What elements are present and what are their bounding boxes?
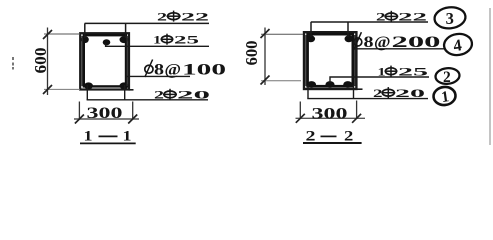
svg-text:2: 2 xyxy=(157,9,167,23)
svg-text:1: 1 xyxy=(84,129,93,145)
rebar dot bottom-left of right section (2*20) xyxy=(307,81,316,88)
dim 600 right: bottom tick xyxy=(261,76,270,85)
rebar bar top-middle (1*25) xyxy=(103,39,111,45)
leader 2*20 right horizontal xyxy=(307,98,428,100)
dim 300 right: extension left xyxy=(299,102,301,120)
balloon 4 xyxy=(443,32,474,57)
dim 600 left: dimension line xyxy=(47,28,49,96)
dim 300 right: left tick xyxy=(296,114,305,123)
dim 600 right: top extension line xyxy=(261,33,303,35)
rebar symbol in right 2*20 xyxy=(381,87,395,98)
svg-text:@: @ xyxy=(165,62,182,79)
rebar symbol in 1*25 xyxy=(161,34,174,45)
rebar dot bottom-right (2*20) xyxy=(120,82,129,89)
leader 1*25 hook xyxy=(106,44,209,47)
label 2*22 xyxy=(157,9,209,23)
svg-text:8: 8 xyxy=(364,34,374,51)
svg-text:25: 25 xyxy=(174,33,199,47)
svg-text:200: 200 xyxy=(392,34,442,51)
left column scan filler left xyxy=(81,36,83,86)
svg-text:2: 2 xyxy=(443,69,451,86)
svg-text:25: 25 xyxy=(398,64,428,78)
svg-text:20: 20 xyxy=(177,88,210,102)
dim 600 left: bottom tick xyxy=(43,85,52,94)
title 1-1 underline xyxy=(80,142,136,144)
svg-text:1: 1 xyxy=(378,64,386,78)
svg-text:@: @ xyxy=(374,34,391,51)
title 1-1 dash xyxy=(99,135,118,137)
svg-text:300: 300 xyxy=(87,105,123,122)
rebar dot bottom-left (2*20) xyxy=(84,82,93,89)
plain phi symbol of phi8@100 xyxy=(145,60,153,78)
leader 2*20 right drop right xyxy=(353,85,355,99)
dim 300 left: extension left xyxy=(78,102,80,120)
dim 300 right: dimension line xyxy=(296,117,366,119)
rebar dot bottom-right of right section (2*20) xyxy=(343,81,352,88)
rebar dot top-left (2*22) xyxy=(81,36,89,43)
dim 600 right: dimension line xyxy=(264,28,266,86)
title 2-2 underline xyxy=(303,142,362,144)
balloon 1 xyxy=(433,86,457,106)
label phi8@200 right xyxy=(364,34,442,51)
label 1*25 right xyxy=(378,64,429,78)
label 1*25 xyxy=(153,33,199,47)
leader 2*20 horizontal xyxy=(87,99,208,101)
dim 600 left: top extension line xyxy=(44,33,80,35)
dim 300 right: right tick xyxy=(352,114,361,123)
svg-text:600: 600 xyxy=(31,48,50,74)
leader 2*22 horizontal xyxy=(85,22,209,24)
svg-text:300: 300 xyxy=(312,105,348,122)
leader phi8@100 xyxy=(126,75,190,77)
leader 2*22 right section horizontal xyxy=(311,21,428,23)
balloon 2 xyxy=(435,67,460,86)
svg-text:1: 1 xyxy=(440,88,450,106)
dim 600 right: top tick xyxy=(261,29,270,38)
svg-text:3: 3 xyxy=(446,9,454,28)
dim 600 right: bottom extension line xyxy=(261,80,301,82)
dim 600 left: bottom extension line xyxy=(44,88,80,90)
scan speckles left margin xyxy=(12,57,14,70)
leader 2*20 right drop left xyxy=(307,85,309,99)
right column scan filler right xyxy=(354,35,356,86)
label 2*20 right xyxy=(373,86,425,100)
label phi8@100 xyxy=(154,62,226,79)
leader 1*25 right hook xyxy=(330,77,429,83)
svg-text:2: 2 xyxy=(376,10,386,24)
rebar symbol in right 2*22 xyxy=(384,11,398,22)
right stirrup xyxy=(308,34,353,86)
svg-text:20: 20 xyxy=(395,86,425,100)
dim 300 left: left tick xyxy=(75,115,84,124)
table border right xyxy=(489,8,491,145)
svg-text:22: 22 xyxy=(181,9,209,23)
svg-text:8: 8 xyxy=(154,62,164,79)
right column scan filler left xyxy=(305,35,307,86)
svg-text:100: 100 xyxy=(182,62,226,79)
dim 300 left: extension right xyxy=(132,102,134,120)
dim 300 right: extension right xyxy=(356,101,358,120)
left stirrup xyxy=(84,35,126,86)
label 2*22 right xyxy=(376,10,427,24)
leader 2*22 drop right xyxy=(125,23,127,38)
rebar dot top-right of right section (2*22) xyxy=(345,35,354,42)
rebar symbol in right 1*25 xyxy=(385,66,398,77)
svg-text:1: 1 xyxy=(123,129,132,145)
leader phi8@200 right xyxy=(355,48,444,50)
label 2*20 xyxy=(154,88,210,102)
leader 2*22 right drop left xyxy=(310,22,312,37)
svg-text:22: 22 xyxy=(398,10,427,24)
rebar bar bottom-middle of right section (1*25) xyxy=(325,81,334,88)
rebar symbol in 2*20 xyxy=(163,89,177,100)
leader 2*22 right drop right xyxy=(347,22,349,37)
dim 600 left: top tick xyxy=(43,30,52,39)
leader 2*22 drop left xyxy=(84,23,86,38)
dim 300 left: right tick xyxy=(128,115,137,124)
rebar dot top-left of right section (2*22) xyxy=(307,35,316,42)
title 2-2 dash xyxy=(321,135,337,137)
balloon 3 xyxy=(433,6,466,30)
svg-text:600: 600 xyxy=(242,41,261,66)
svg-text:4: 4 xyxy=(452,35,463,55)
leader 2*20 bottom with two drops xyxy=(86,85,88,100)
right beam outer outline xyxy=(304,32,356,89)
right beam bottom edge extension xyxy=(356,88,363,90)
left beam bottom edge extension xyxy=(129,89,134,91)
title 1-1 text xyxy=(84,129,132,145)
plain phi symbol of phi8@200 xyxy=(354,32,362,50)
rebar dot top-right (2*22) xyxy=(120,36,129,43)
svg-text:2: 2 xyxy=(154,88,164,102)
dim 300 left: dimension line xyxy=(74,118,139,120)
leader 2*20 drop right xyxy=(124,85,126,100)
title 2-2 text xyxy=(306,129,354,145)
left beam outer outline xyxy=(80,33,129,89)
svg-text:2: 2 xyxy=(373,86,383,100)
svg-text:1: 1 xyxy=(153,33,161,47)
rebar symbol in 2*22 xyxy=(167,11,181,22)
left column scan filler right xyxy=(126,36,128,86)
